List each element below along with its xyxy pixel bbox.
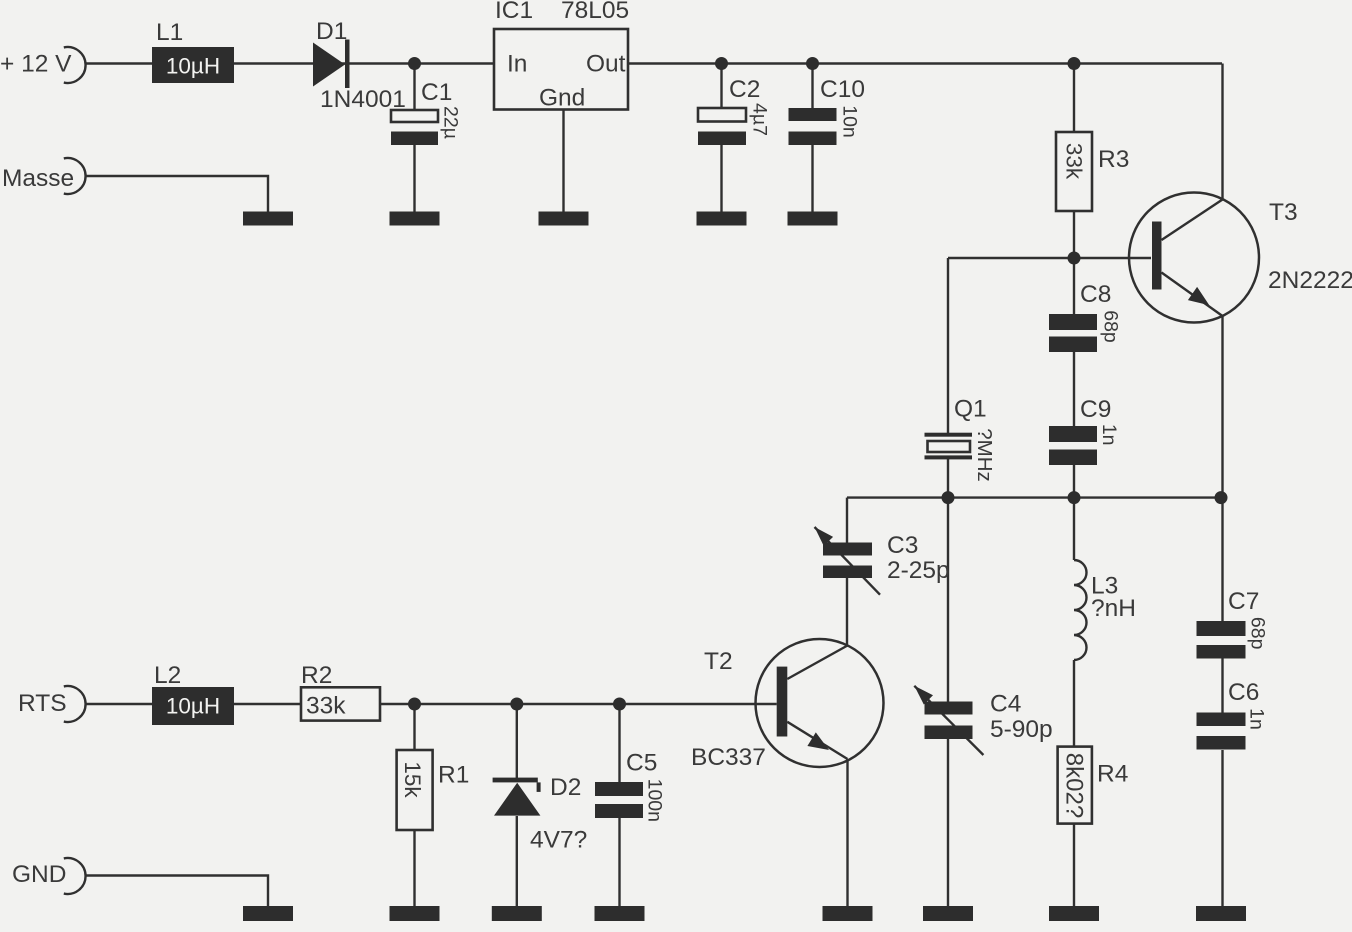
svg-text:2N2222: 2N2222: [1268, 267, 1352, 294]
svg-text:Gnd: Gnd: [539, 85, 585, 112]
svg-text:D1: D1: [316, 18, 347, 45]
svg-text:C4: C4: [990, 691, 1021, 718]
svg-text:IC1: IC1: [495, 0, 533, 24]
svg-text:C5: C5: [626, 750, 657, 777]
svg-text:L1: L1: [156, 19, 183, 46]
svg-text:T3: T3: [1269, 199, 1298, 226]
svg-text:+ 12 V: + 12 V: [0, 51, 72, 78]
svg-text:78L05: 78L05: [561, 0, 629, 24]
svg-text:15k: 15k: [400, 761, 425, 798]
svg-text:RTS: RTS: [18, 690, 67, 717]
svg-text:C9: C9: [1080, 396, 1111, 423]
svg-text:4µ7: 4µ7: [749, 103, 771, 136]
svg-text:D2: D2: [550, 774, 581, 801]
svg-text:68p: 68p: [1247, 617, 1269, 650]
svg-text:?nH: ?nH: [1091, 595, 1136, 622]
svg-text:22µ: 22µ: [440, 106, 462, 139]
svg-text:?MHz: ?MHz: [973, 428, 996, 482]
svg-text:In: In: [507, 51, 527, 78]
svg-text:C3: C3: [887, 532, 918, 559]
svg-text:C8: C8: [1080, 281, 1111, 308]
svg-text:R4: R4: [1097, 761, 1128, 788]
svg-text:100n: 100n: [643, 779, 665, 822]
svg-text:C1: C1: [421, 79, 452, 106]
svg-text:BC337: BC337: [691, 744, 766, 771]
svg-text:8k02?: 8k02?: [1061, 753, 1088, 818]
svg-text:4V7?: 4V7?: [530, 827, 587, 854]
svg-text:R2: R2: [301, 662, 332, 689]
svg-text:2-25p: 2-25p: [887, 557, 950, 584]
svg-text:Masse: Masse: [2, 165, 74, 192]
svg-text:68p: 68p: [1100, 310, 1122, 343]
svg-text:10n: 10n: [839, 105, 861, 138]
svg-text:Out: Out: [586, 51, 626, 78]
svg-text:33k: 33k: [1062, 143, 1087, 180]
svg-text:GND: GND: [12, 861, 66, 888]
svg-text:T2: T2: [704, 648, 733, 675]
svg-text:1n: 1n: [1246, 708, 1268, 730]
svg-text:C10: C10: [820, 76, 865, 103]
svg-text:C2: C2: [729, 76, 760, 103]
svg-text:R3: R3: [1098, 146, 1129, 173]
svg-text:1n: 1n: [1098, 424, 1120, 446]
svg-text:C6: C6: [1228, 679, 1259, 706]
svg-text:C7: C7: [1228, 588, 1259, 615]
svg-text:10µH: 10µH: [166, 54, 220, 79]
svg-text:R1: R1: [438, 762, 469, 789]
svg-text:10µH: 10µH: [166, 694, 220, 719]
svg-text:1N4001: 1N4001: [320, 86, 406, 113]
svg-text:L2: L2: [154, 662, 181, 689]
svg-text:Q1: Q1: [954, 396, 987, 423]
svg-text:33k: 33k: [306, 693, 346, 720]
svg-text:5-90p: 5-90p: [990, 716, 1053, 743]
